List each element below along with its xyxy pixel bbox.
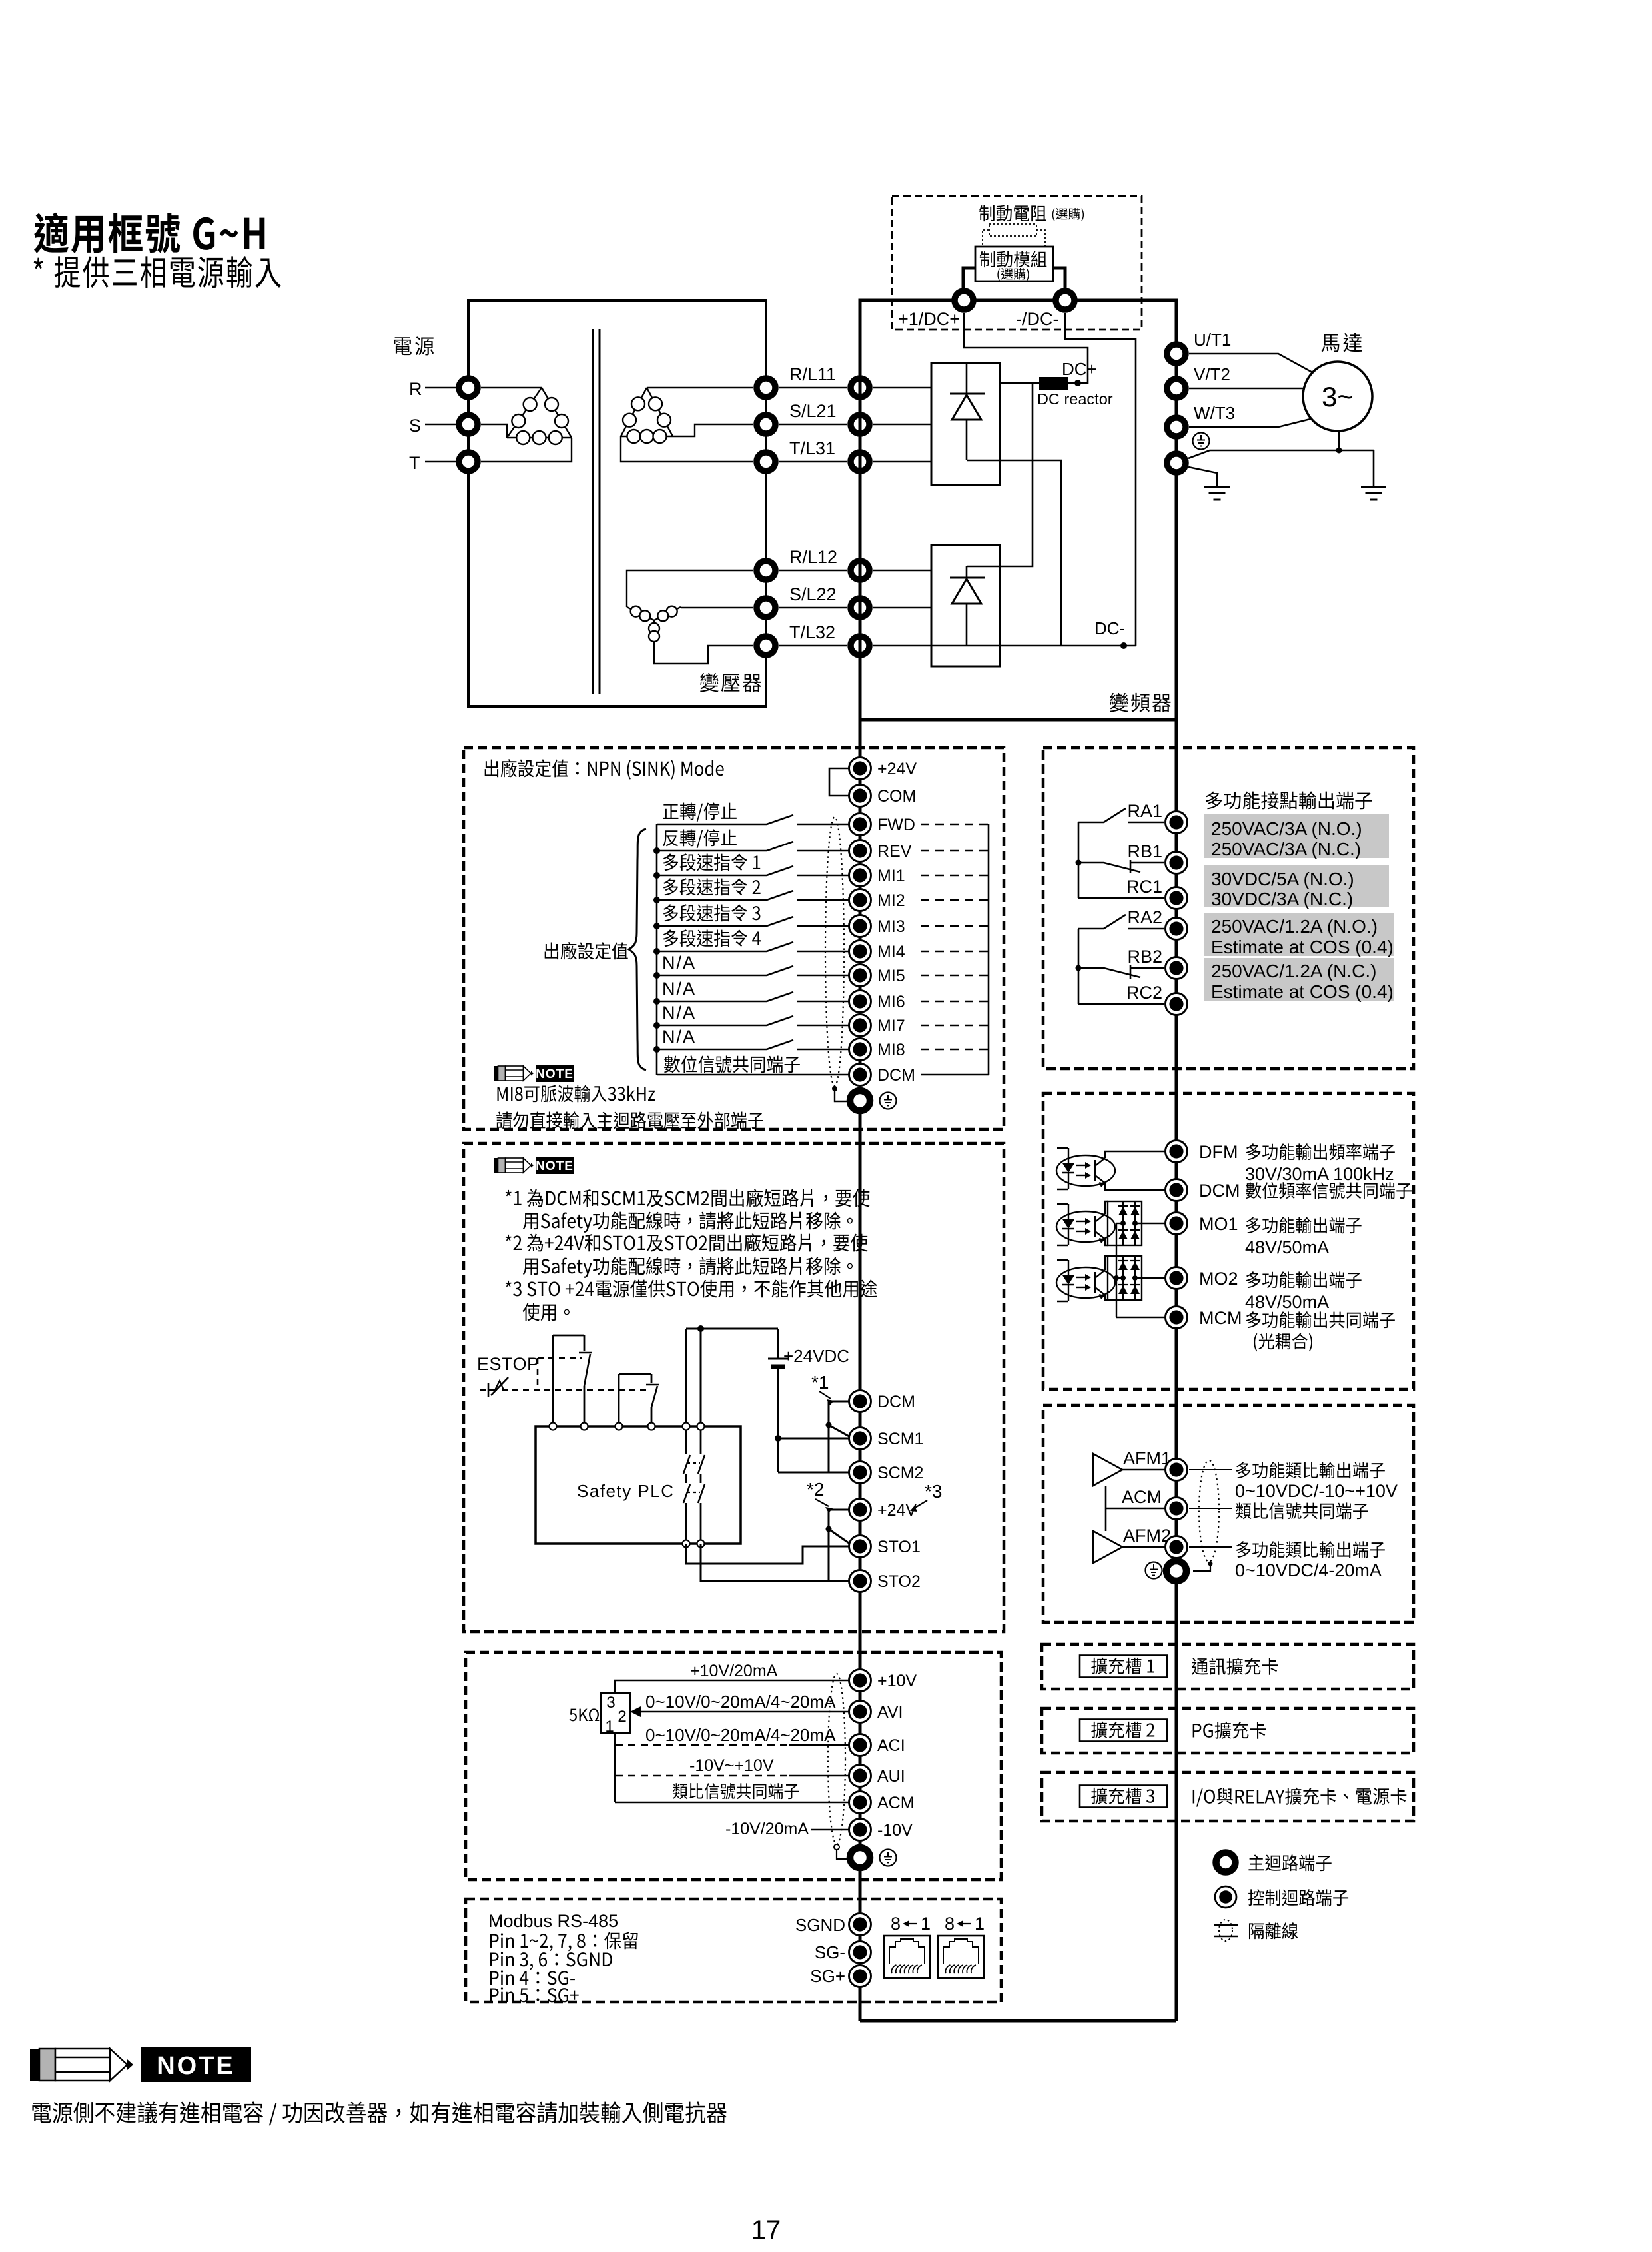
wire to SCM2 (778, 1438, 850, 1472)
switch MI8 arm (767, 1040, 793, 1049)
transformer box (468, 300, 766, 706)
wire bottom control bus (860, 2019, 1176, 2023)
wire ACI dashed (616, 1744, 850, 1746)
svg-text:+24VDC: +24VDC (783, 1346, 849, 1366)
junction motor ground (1336, 448, 1342, 454)
svg-text:AVI: AVI (877, 1703, 903, 1722)
svg-text:MI4: MI4 (877, 943, 905, 961)
wire ACM in (615, 1802, 850, 1803)
terminal MI6 (849, 991, 871, 1013)
junction relay bus 1 (1076, 860, 1082, 866)
note sto line1 (506, 1189, 870, 1207)
label RB1 (1127, 842, 1162, 861)
spec box relay2 NC (1204, 958, 1394, 1001)
wire DCM common (657, 1074, 850, 1076)
svg-text:*1: *1 (811, 1372, 829, 1393)
note sto line3 (506, 1233, 868, 1251)
svg-text:RA1: RA1 (1127, 801, 1162, 821)
wire MI1 dashed (921, 875, 989, 876)
ground symbol left (1204, 487, 1230, 500)
spec relay2 NO text (1211, 916, 1394, 957)
svg-text:17: 17 (751, 2215, 781, 2245)
label MO1 out (1199, 1214, 1238, 1234)
terminal R/L12 transformer side (757, 561, 775, 580)
shield ellipse analog out (1199, 1460, 1219, 1562)
label STO1 sto (877, 1538, 921, 1556)
label MI2 function (663, 878, 761, 895)
label DCM out (1199, 1181, 1240, 1201)
label -10V/20mA (725, 1820, 809, 1838)
switch MI2 arm (767, 891, 793, 900)
legend main terminal (1216, 1853, 1236, 1872)
wire T/L31 link (779, 461, 847, 463)
label RC2 (1126, 983, 1162, 1003)
wire S stub (425, 424, 456, 426)
label MI5 (877, 967, 905, 985)
svg-text:Safety PLC: Safety PLC (577, 1481, 675, 1501)
label 數位信號共同端子 (664, 1055, 800, 1073)
spec box relay1 AC (1204, 814, 1389, 858)
wire U2 emitter to DCM (1105, 1183, 1168, 1190)
svg-text:30VDC/5A (N.O.): 30VDC/5A (N.O.) (1211, 869, 1354, 889)
junction REV bus (653, 847, 660, 854)
junction MI5 bus (653, 972, 660, 979)
wire MI6 right (797, 1001, 850, 1003)
spec relay1 DC text (1211, 869, 1354, 909)
label REV (877, 842, 912, 861)
svg-text:MI8: MI8 (877, 1041, 905, 1059)
terminal S/L21 inverter side (851, 415, 869, 434)
contact RB1 (1078, 860, 1164, 873)
label S (409, 416, 421, 436)
svg-text:STO2: STO2 (877, 1572, 921, 1591)
braking module box (975, 247, 1053, 281)
svg-text:DC-: DC- (1094, 618, 1125, 638)
desc AFM2 line1 (1236, 1541, 1385, 1558)
terminal +1/DC+ (955, 291, 973, 310)
label DFM out (1199, 1142, 1238, 1162)
wire right control bus (1175, 720, 1178, 2021)
output section box (1043, 1093, 1414, 1389)
label MI7 (877, 1017, 905, 1035)
label AUI in (877, 1767, 905, 1786)
svg-text:30V/30mA 100kHz: 30V/30mA 100kHz (1245, 1164, 1394, 1184)
junction MCM vertical (1114, 1275, 1119, 1281)
safety section box (464, 1143, 1004, 1632)
svg-text:ESTOP: ESTOP (477, 1354, 540, 1374)
svg-text:SCM1: SCM1 (877, 1430, 923, 1448)
wire PLC supply top (686, 1329, 778, 1426)
svg-text:ACI: ACI (877, 1736, 905, 1755)
label COM (877, 787, 916, 806)
svg-text:FWD: FWD (877, 816, 915, 834)
svg-text:RC1: RC1 (1126, 877, 1162, 897)
svg-text:48V/50mA: 48V/50mA (1245, 1237, 1329, 1257)
wire output ground to motor (1188, 450, 1374, 458)
wire bridge1 negative to DC- (967, 460, 1061, 646)
svg-text:W/T3: W/T3 (1194, 403, 1235, 423)
svg-text:S/L22: S/L22 (789, 584, 837, 604)
label pot 2 (618, 1708, 626, 1726)
label +24VDC (783, 1346, 849, 1366)
spec box relay1 DC (1204, 865, 1389, 907)
svg-text:Estimate at COS (0.4): Estimate at COS (0.4) (1211, 981, 1394, 1002)
switch MI6 arm (767, 992, 793, 1001)
terminal MCM out (1166, 1307, 1188, 1329)
label ACI in (877, 1736, 905, 1755)
wire motor ground (1338, 431, 1340, 450)
terminal S/L22 inverter side (851, 598, 869, 617)
svg-text:-10V/20mA: -10V/20mA (725, 1820, 809, 1838)
svg-text:R/L12: R/L12 (789, 547, 837, 567)
PE symbol analog in (880, 1850, 897, 1866)
svg-text:0~10V/0~20mA/4~20mA: 0~10V/0~20mA/4~20mA (645, 1692, 836, 1712)
wye right arm (654, 606, 681, 622)
svg-text:0~10VDC/-10~+10V: 0~10VDC/-10~+10V (1235, 1481, 1398, 1501)
wire DCM to rail (921, 1074, 989, 1076)
label FWD (877, 816, 915, 834)
wire U3 emitter (1105, 1239, 1108, 1245)
wire V/T2 (1189, 388, 1304, 390)
lead ACM (1189, 1508, 1232, 1509)
terminal DFM out (1166, 1141, 1188, 1163)
terminal V/T2 (1167, 379, 1186, 398)
wire REV left (657, 850, 767, 852)
wire D4 to MO2 (1135, 1277, 1168, 1279)
switch MI7 arm (767, 1016, 793, 1025)
label 3~ (1322, 381, 1354, 412)
RJ45 jack 2 (938, 1936, 984, 1978)
terminal +24V (849, 758, 871, 780)
PLC internal contacts (683, 1426, 705, 1544)
node shield analog in (834, 1844, 839, 1850)
svg-text:R/L11: R/L11 (789, 364, 836, 384)
terminal +10V in (849, 1670, 871, 1692)
label Pin 5 (490, 1987, 579, 2002)
terminal -10V in (849, 1819, 871, 1841)
wire MI1 right (797, 875, 850, 877)
svg-text:SGND: SGND (795, 1915, 845, 1935)
note sto line4 (523, 1257, 853, 1277)
wire D3 to MO1 (1135, 1223, 1168, 1224)
inverter box (860, 300, 1176, 720)
terminal T/L32 inverter side (851, 636, 869, 655)
label MI4 function (663, 929, 761, 947)
label ACM out (1122, 1487, 1162, 1507)
optocoupler U2 (1056, 1148, 1115, 1189)
junction relay bus 2 (1076, 965, 1082, 971)
label -/DC- (1016, 309, 1058, 329)
label SG- (815, 1942, 845, 1962)
wire left control bus (859, 720, 862, 2021)
terminal S/L21 transformer side (757, 415, 775, 434)
modbus section box (466, 1899, 1001, 2002)
terminal R/L11 transformer side (757, 378, 775, 397)
label AVI in (877, 1703, 903, 1722)
wire R/L12 link (779, 570, 847, 572)
wire wye to T/L32 (654, 644, 753, 664)
label ESTOP (477, 1354, 540, 1374)
junction MI2 bus (653, 897, 660, 903)
svg-text:SG-: SG- (815, 1942, 845, 1962)
wire reactor to +1/DC+ (964, 313, 1088, 383)
wire STO2 (701, 1544, 850, 1581)
label SCM2 sto (877, 1464, 923, 1482)
terminal T (459, 452, 478, 471)
wire ACM out (1106, 1508, 1168, 1510)
switch REV arm (767, 842, 793, 851)
wire MI2 left (657, 899, 767, 901)
label RC1 (1126, 877, 1162, 897)
junction MI3 bus (653, 923, 660, 929)
svg-text:MI2: MI2 (877, 891, 905, 910)
secondary delta right side (647, 388, 673, 436)
shield ellipse digital (825, 817, 844, 1086)
label MI3 (877, 917, 905, 936)
terminal DCM (849, 1064, 871, 1086)
svg-text:T: T (409, 453, 420, 473)
PE symbol box1 (880, 1093, 897, 1109)
wire U2 collector to DFM (1105, 1151, 1168, 1158)
ESTOP dashed link (480, 1358, 651, 1390)
braking resistor dotted box (989, 224, 1036, 236)
wire MI7 dashed (921, 1025, 989, 1026)
slot 1 label box (1080, 1656, 1167, 1678)
terminal output ground (1167, 454, 1186, 472)
rectifier bridge 2 box (931, 545, 1000, 666)
relay bus 1 (1078, 822, 1080, 898)
terminal STO1 sto (849, 1536, 871, 1558)
terminal T/L31 transformer side (757, 452, 775, 471)
wire MI7 right (797, 1025, 850, 1027)
junction MI7 bus (653, 1022, 660, 1029)
wire delta to T/L31 (621, 436, 753, 462)
label DC reactor (1037, 390, 1113, 408)
desc MO1 line1 (1246, 1217, 1362, 1233)
label 8-1 jack2 (945, 1914, 985, 1934)
svg-text:1: 1 (975, 1914, 985, 1934)
label *1 (811, 1372, 834, 1405)
contact RB2 (1078, 965, 1164, 979)
wire shield analog in (837, 1850, 847, 1859)
label T (409, 453, 420, 473)
label 變頻器 (1110, 693, 1171, 712)
terminal MI4 (849, 941, 871, 963)
label ACM in (877, 1794, 915, 1812)
label STO2 sto (877, 1572, 921, 1591)
PLC top pins (550, 1423, 705, 1430)
wire MI5 left (657, 975, 767, 977)
label +1/DC+ (898, 309, 960, 329)
wye bottom arm (649, 620, 659, 644)
wire pot common (614, 1733, 616, 1802)
diode array D4 box (1108, 1256, 1142, 1300)
terminal +24V sto (849, 1499, 871, 1521)
label MI1 (877, 867, 905, 885)
braking resistor dotted leads (983, 230, 1045, 247)
svg-text:250VAC/3A (N.C.): 250VAC/3A (N.C.) (1211, 839, 1361, 859)
wire ground right drop (1373, 450, 1375, 486)
bottom note text (32, 2101, 726, 2125)
transformer core lines (593, 329, 600, 694)
label -10V in (877, 1821, 913, 1840)
wire delta to S/L21 (673, 424, 753, 436)
label pot 1 (605, 1718, 614, 1736)
wire to SCM1 (778, 1438, 850, 1440)
svg-text:30VDC/3A (N.C.): 30VDC/3A (N.C.) (1211, 889, 1353, 909)
slot 2 label box (1080, 1720, 1167, 1742)
wire ground left drop (1188, 467, 1217, 486)
ESTOP channel 2 (619, 1374, 659, 1426)
wire MI4 left (657, 951, 767, 953)
label RB2 (1127, 947, 1162, 967)
switch MI3 arm (767, 917, 793, 926)
wire MI7 left (657, 1025, 767, 1027)
wire U4 emitter (1105, 1295, 1108, 1300)
svg-text:Modbus RS-485: Modbus RS-485 (488, 1911, 618, 1931)
lead AFM2 (1189, 1546, 1232, 1548)
desc ACM line (1236, 1502, 1368, 1519)
wire FWD dashed (921, 824, 989, 825)
desc DCM line (1246, 1182, 1412, 1199)
svg-text:RA2: RA2 (1127, 907, 1162, 927)
label 制動電阻 (979, 205, 1046, 221)
svg-text:U/T1: U/T1 (1194, 330, 1231, 350)
legend shield symbol (1214, 1920, 1238, 1941)
svg-text:*3: *3 (925, 1481, 942, 1502)
label SG+ (810, 1966, 845, 1986)
svg-text:250VAC/1.2A (N.O.): 250VAC/1.2A (N.O.) (1211, 916, 1378, 937)
label FWD function (663, 802, 737, 822)
svg-text:AFM2: AFM2 (1123, 1526, 1171, 1546)
terminal RB1 (1166, 852, 1188, 874)
label MCM out (1199, 1308, 1242, 1328)
terminal analog in ground (850, 1848, 870, 1868)
digital input common bus (656, 824, 658, 1075)
wire amp common (1105, 1486, 1107, 1531)
svg-text:STO1: STO1 (877, 1538, 921, 1556)
terminal S (459, 415, 478, 434)
svg-text:AFM1: AFM1 (1123, 1448, 1171, 1468)
svg-text:ACM: ACM (1122, 1487, 1162, 1507)
terminal SG+ (849, 1966, 871, 1987)
label +10V/20mA (690, 1662, 778, 1680)
label DC+ (1062, 359, 1097, 379)
svg-text:MI5: MI5 (877, 967, 905, 985)
wire DC+ node to bridge2 (967, 383, 1032, 566)
desc MO2 line2 (1245, 1292, 1329, 1312)
label MI1 function (663, 853, 761, 871)
primary delta right side (542, 388, 572, 438)
label +24V (877, 760, 917, 778)
svg-text:8: 8 (945, 1914, 955, 1934)
analog out section box (1043, 1405, 1414, 1622)
label 制動模組 (980, 251, 1047, 267)
terminal U/T1 (1167, 344, 1186, 363)
label slot2 desc (1193, 1722, 1266, 1739)
expansion slot 2 box (1042, 1708, 1414, 1753)
svg-text:MI1: MI1 (877, 867, 905, 885)
label 出廠設定值 (545, 942, 628, 959)
wire T/L32 link (779, 645, 847, 647)
contact RA2 (1078, 915, 1164, 929)
label SCM1 sto (877, 1430, 923, 1448)
svg-text:*2: *2 (807, 1479, 824, 1500)
svg-text:3~: 3~ (1322, 381, 1354, 412)
terminal DCM out (1166, 1179, 1188, 1201)
battery +24VDC (768, 1329, 788, 1438)
rectifier bridge 1 box (931, 363, 1000, 485)
jumper *2 24V-STO (829, 1510, 853, 1581)
note icon box4 (494, 1157, 574, 1174)
amplifier AFM2 (1093, 1531, 1122, 1563)
svg-text:+24V: +24V (877, 760, 917, 778)
junction MI8 bus (653, 1046, 660, 1053)
svg-text:-/DC-: -/DC- (1016, 309, 1058, 329)
label MI6 function N/A (662, 979, 696, 999)
diode array D3 box (1108, 1201, 1142, 1245)
terminal SCM1 sto (849, 1428, 871, 1450)
svg-text:NOTE: NOTE (536, 1159, 574, 1173)
slot 3 label box (1080, 1786, 1167, 1808)
wire MI4 right (797, 951, 850, 953)
svg-text:S/L21: S/L21 (789, 401, 837, 421)
svg-text:1: 1 (605, 1718, 614, 1736)
svg-text:MO2: MO2 (1199, 1269, 1238, 1289)
terminal RC1 (1166, 887, 1188, 909)
terminal S/L22 transformer side (757, 598, 775, 617)
wire MI8 right (797, 1049, 850, 1051)
wire delta to R/L11 (647, 387, 753, 388)
label MI7 function N/A (662, 1003, 696, 1023)
wire AFM1 (1122, 1469, 1168, 1471)
wire MI5 right (797, 975, 850, 977)
svg-text:250VAC/3A (N.O.): 250VAC/3A (N.O.) (1211, 818, 1362, 839)
svg-text:+1/DC+: +1/DC+ (898, 309, 960, 329)
switch MI4 arm (767, 942, 793, 951)
wire shield analog out (1193, 1564, 1210, 1571)
wire +10V (615, 1680, 850, 1693)
wire MCM common vertical (1116, 1223, 1123, 1317)
svg-text:+10V: +10V (877, 1672, 917, 1690)
shield ellipse analog in (828, 1674, 845, 1844)
svg-text:N/A: N/A (662, 1003, 696, 1023)
svg-text:8: 8 (891, 1914, 901, 1934)
node DC+ (1074, 380, 1081, 386)
terminal RC2 (1166, 993, 1188, 1015)
wire S/L21 link (779, 424, 847, 426)
optocoupler U4 (1056, 1260, 1115, 1301)
note MI8 line1 (498, 1085, 655, 1102)
wire MI6 dashed (921, 1001, 989, 1002)
node DC- (1120, 642, 1127, 649)
svg-text:-10V: -10V (877, 1821, 913, 1840)
label Safety PLC (577, 1481, 675, 1501)
RJ45 jack 1 (884, 1936, 930, 1978)
contact RA1 (1078, 808, 1164, 822)
desc MO1 line2 (1245, 1237, 1329, 1257)
label W/T3 (1194, 403, 1235, 423)
desc AFM1 line1 (1236, 1462, 1385, 1478)
svg-text:2: 2 (618, 1708, 626, 1726)
desc DFM line1 (1246, 1143, 1395, 1160)
secondary delta left side (621, 388, 647, 436)
svg-text:-10V~+10V: -10V~+10V (689, 1756, 774, 1775)
terminal R/L11 inverter side (851, 378, 869, 397)
legend 隔離線 (1249, 1922, 1298, 1939)
junction battery SCM1 (775, 1435, 781, 1442)
terminal AVI in (849, 1701, 871, 1723)
